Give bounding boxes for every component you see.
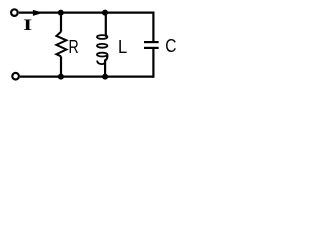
wire bottom (capacitor corner to node D) <box>105 75 153 77</box>
wire inductor exit half-loop <box>97 61 105 65</box>
wire resistor bottom lead <box>60 56 62 76</box>
node C (bottom junction, resistor branch) <box>58 74 64 80</box>
node A (top junction, resistor branch) <box>58 10 64 16</box>
wire bottom (node C to terminal) <box>20 75 61 77</box>
wire top (node B to capacitor corner) <box>105 12 153 14</box>
wire capacitor top lead <box>152 13 153 41</box>
node D (bottom junction, inductor branch) <box>102 74 108 80</box>
svg-text:C: C <box>165 36 176 56</box>
svg-text:L: L <box>118 37 127 57</box>
wire inductor bottom lead <box>105 55 107 77</box>
wire inductor top lead <box>106 13 107 37</box>
node B (top junction, inductor branch) <box>102 10 108 16</box>
current arrow <box>33 10 43 16</box>
capacitor C (plates) <box>144 42 159 48</box>
label I <box>23 16 32 34</box>
terminal bottom-left (open circle) <box>12 73 19 80</box>
svg-text:R: R <box>69 37 79 57</box>
wire top (terminal to node A) <box>19 12 61 14</box>
inductor L (coil loops) <box>97 35 107 56</box>
terminal top-left (open circle) <box>11 9 18 16</box>
wire capacitor bottom lead <box>152 49 153 77</box>
wire resistor top lead <box>60 13 62 32</box>
wire top (node A to node B) <box>61 12 105 14</box>
svg-text:I: I <box>23 16 32 34</box>
wire bottom (node D to node C) <box>61 75 105 77</box>
resistor R <box>56 32 66 57</box>
